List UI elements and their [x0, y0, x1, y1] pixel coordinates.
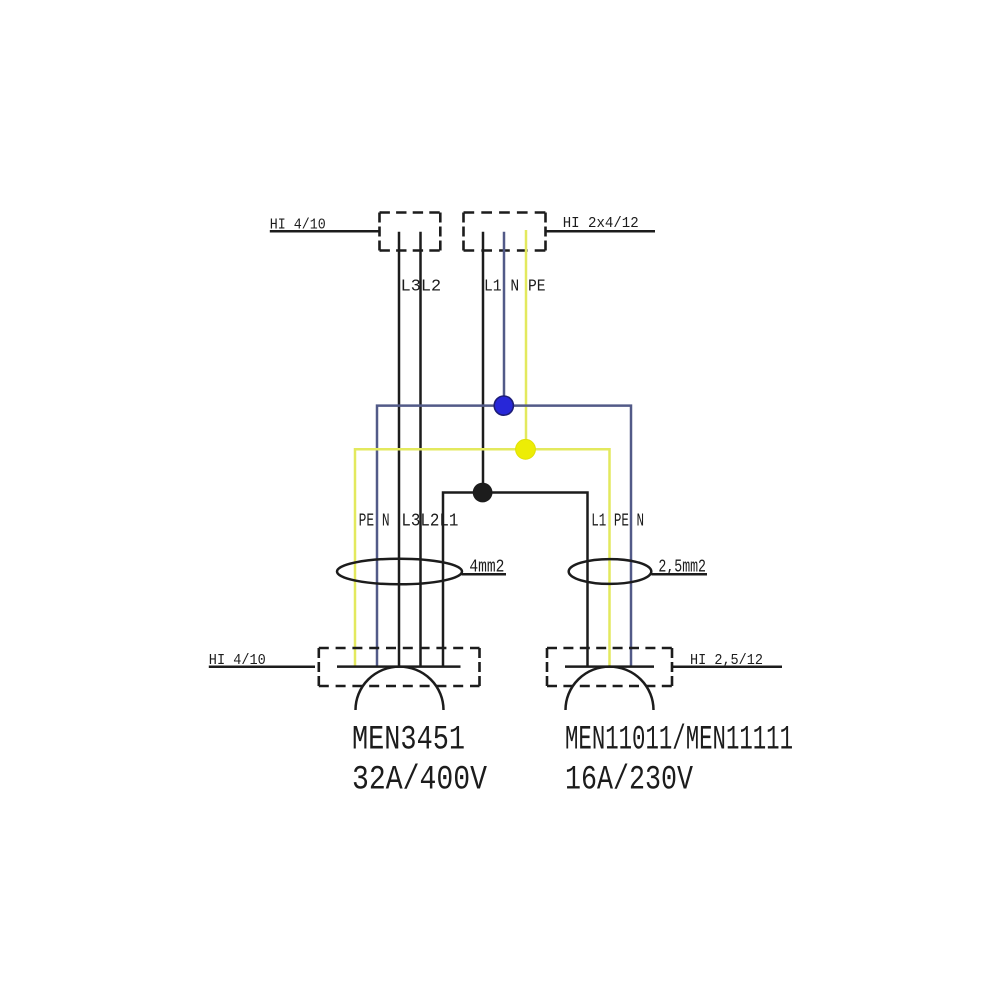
- svg-text:PE N: PE N: [359, 512, 390, 532]
- svg-text:2,5mm2: 2,5mm2: [658, 557, 706, 577]
- svg-text:L1 PE N: L1 PE N: [591, 512, 644, 532]
- svg-text:L3L2: L3L2: [401, 276, 442, 295]
- svg-text:L3L2L1: L3L2L1: [401, 512, 458, 532]
- svg-text:HI 2x4/12: HI 2x4/12: [563, 215, 639, 232]
- svg-text:32A/400V: 32A/400V: [352, 762, 487, 800]
- svg-text:MEN11011/MEN11111: MEN11011/MEN11111: [565, 722, 793, 760]
- svg-text:16A/230V: 16A/230V: [565, 762, 693, 800]
- svg-text:4mm2: 4mm2: [469, 557, 504, 577]
- svg-text:L1 N PE: L1 N PE: [484, 276, 546, 295]
- svg-text:HI 2,5/12: HI 2,5/12: [690, 652, 763, 669]
- svg-text:MEN3451: MEN3451: [352, 722, 465, 760]
